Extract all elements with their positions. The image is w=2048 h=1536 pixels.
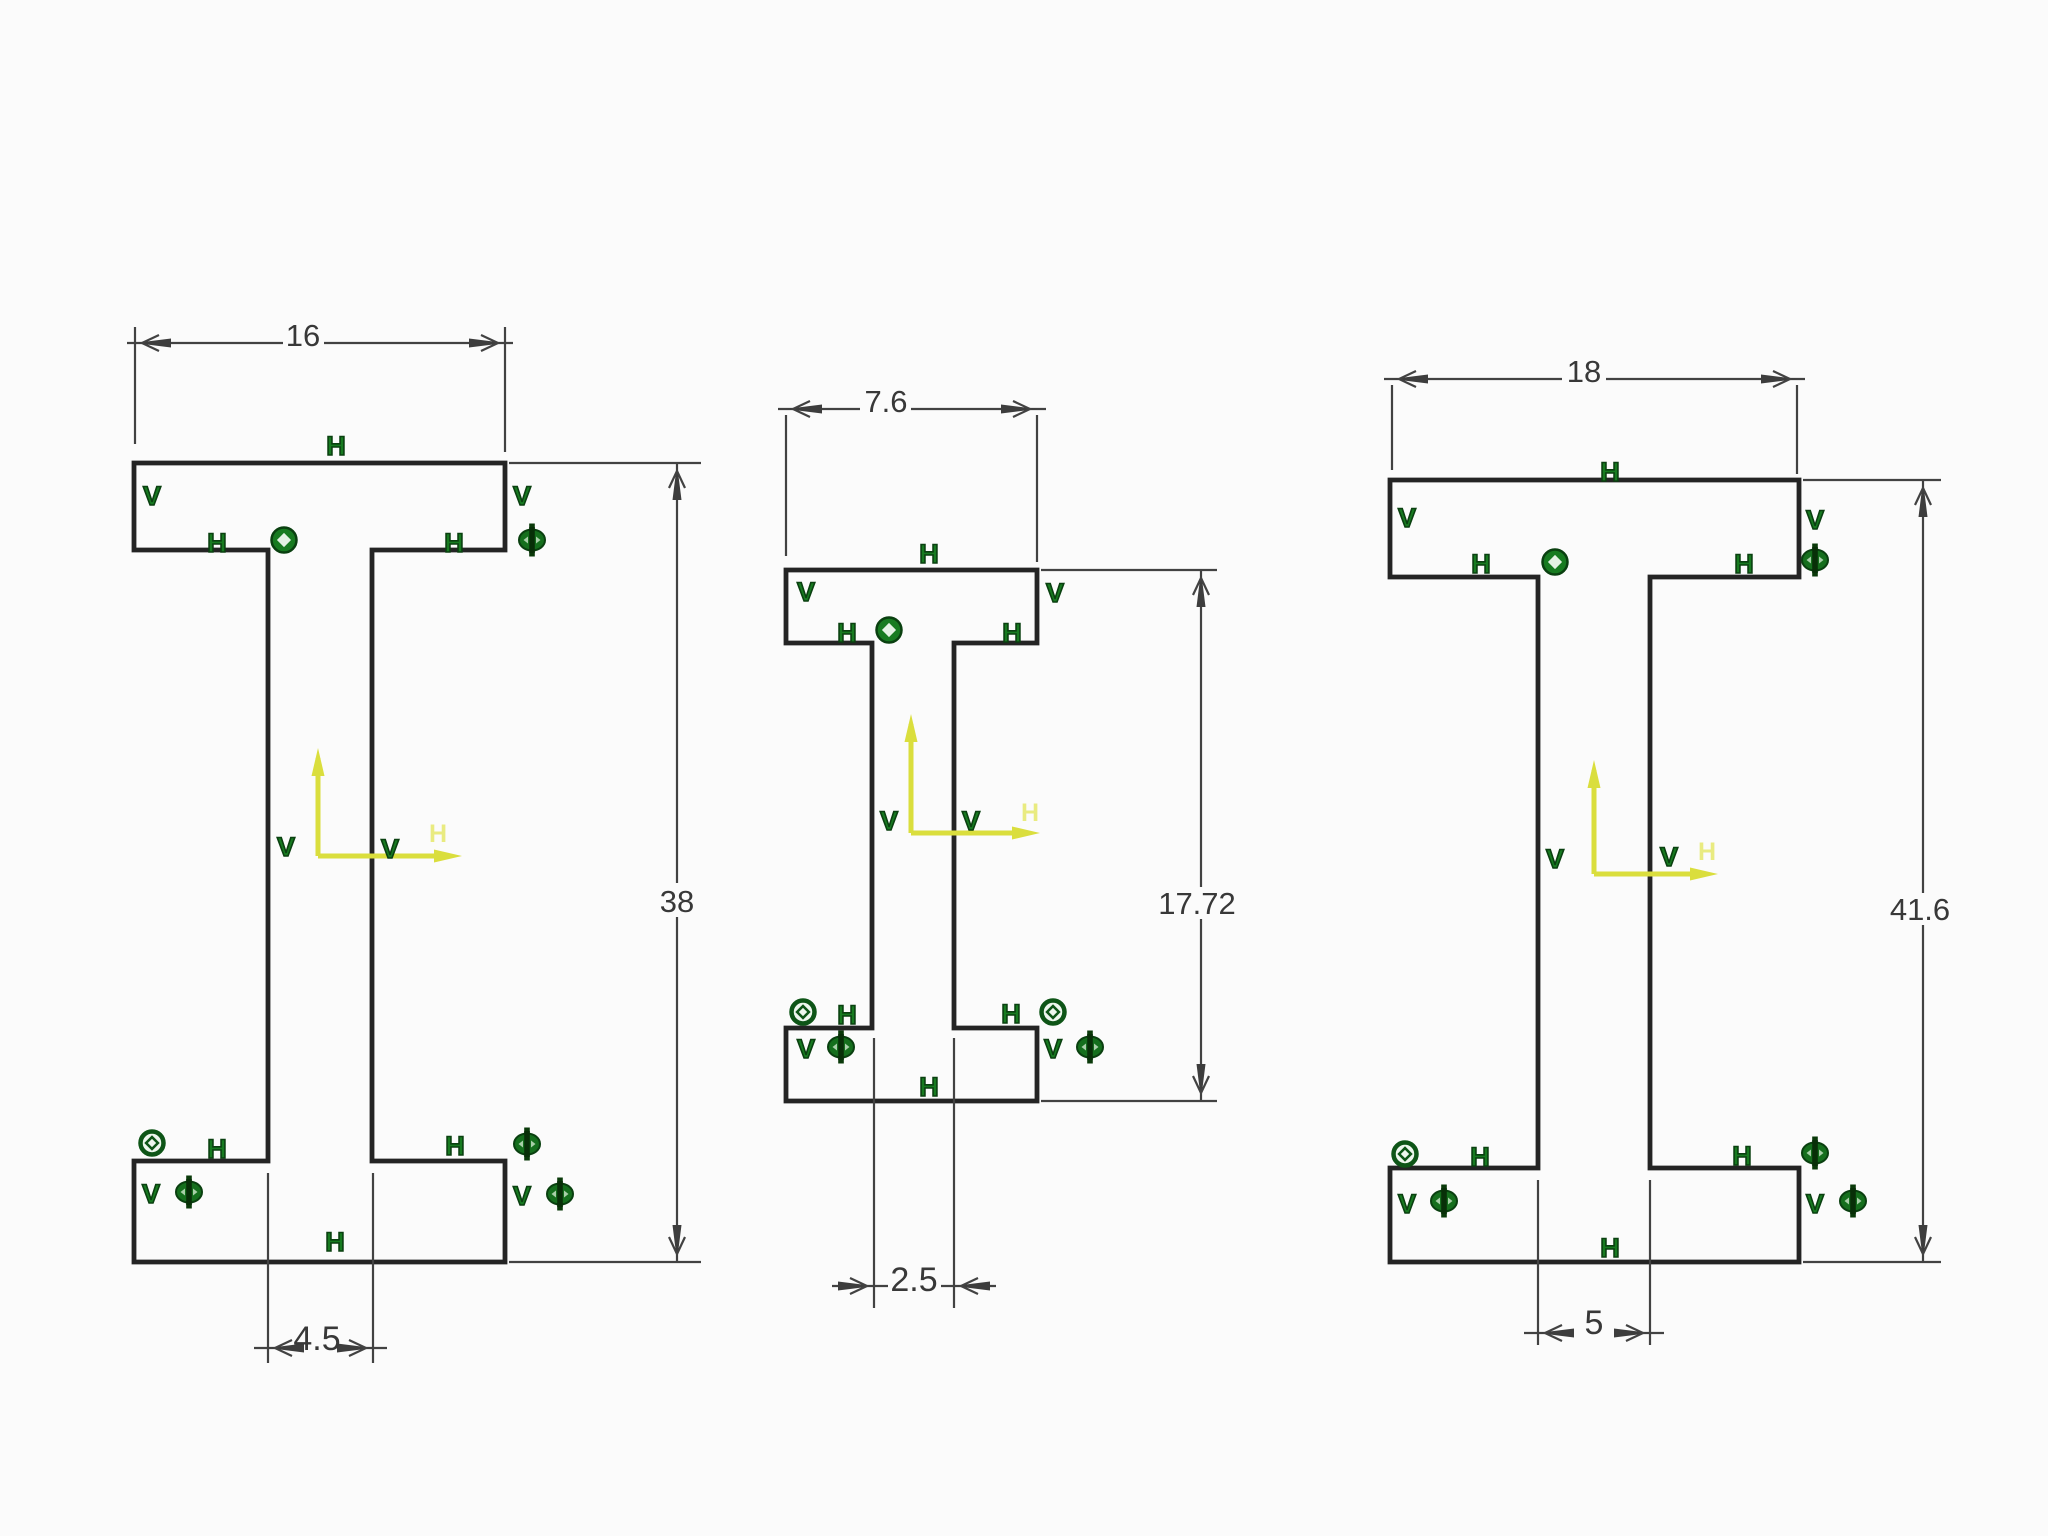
svg-text:H: H xyxy=(1600,1233,1620,1263)
svg-text:H: H xyxy=(1002,618,1022,648)
svg-text:17.72: 17.72 xyxy=(1158,886,1236,921)
dimension 5 arrow left xyxy=(1538,1329,1574,1338)
svg-text:H: H xyxy=(1021,799,1039,827)
dimension 5 extension line left xyxy=(1537,1180,1539,1345)
dimension 16 text xyxy=(283,321,324,349)
dimension 38 extension line bottom xyxy=(509,1261,701,1263)
svg-text:38: 38 xyxy=(660,884,694,919)
dimension 41.6 arrow top xyxy=(1919,481,1928,517)
constraint midpoint bottom-flange-left beam1 xyxy=(176,1176,202,1209)
dimension 17.72 line xyxy=(1200,570,1202,1101)
dimension 2.5 arrow left xyxy=(838,1282,874,1291)
dimension 16 arrow right xyxy=(469,339,505,348)
dimension 2.5 text xyxy=(888,1266,941,1295)
dimension 18 text xyxy=(1562,357,1606,385)
dimension 5 arrow right xyxy=(1614,1329,1650,1338)
constraint coincident bottom-left beam2 xyxy=(792,1001,815,1024)
svg-text:V: V xyxy=(513,1181,531,1211)
constraint midpoint bottom-flange-right beam3 xyxy=(1840,1185,1866,1218)
svg-text:H: H xyxy=(919,539,939,569)
svg-text:H: H xyxy=(429,820,447,848)
svg-text:V: V xyxy=(1806,505,1824,535)
svg-text:V: V xyxy=(797,1034,815,1064)
svg-text:V: V xyxy=(1046,578,1064,608)
dimension 4.5 line xyxy=(254,1347,387,1349)
I-beam profile 1 outline xyxy=(134,463,505,1262)
constraint midpoint top-right beam3 xyxy=(1802,544,1828,577)
dimension 2.5 extension line left xyxy=(873,1038,875,1308)
dimension 2.5 line xyxy=(832,1285,996,1287)
svg-text:V: V xyxy=(277,832,295,862)
I-beam profile 3 outline xyxy=(1390,480,1799,1262)
dimension 7.6 arrow right xyxy=(1001,405,1037,414)
dimension 7.6 line xyxy=(778,408,1046,410)
constraint midpoint bottom-flange-right beam1 xyxy=(547,1178,573,1211)
dimension 18 arrow right xyxy=(1761,375,1797,384)
constraint midpoint bottom-flange-left beam2 xyxy=(828,1031,854,1064)
dimension 16 line xyxy=(127,342,513,344)
origin axes beam 2 xyxy=(905,714,1041,840)
svg-text:H: H xyxy=(837,1000,857,1030)
svg-text:16: 16 xyxy=(286,318,320,353)
dimension 17.72 arrow bottom xyxy=(1197,1064,1206,1100)
dimension 41.6 line xyxy=(1922,480,1924,1262)
dimension 7.6 arrow left xyxy=(786,405,822,414)
svg-text:2.5: 2.5 xyxy=(890,1261,937,1299)
dimension 18 arrow left xyxy=(1392,375,1428,384)
svg-text:V: V xyxy=(962,806,980,836)
svg-text:H: H xyxy=(1600,457,1620,487)
dimension 4.5 arrow right xyxy=(337,1344,373,1353)
origin axes beam 1 xyxy=(312,748,463,863)
constraint coincident top beam2 xyxy=(877,618,902,643)
I-beam profile 2 outline xyxy=(786,570,1037,1101)
dimension 38 extension line top xyxy=(509,462,701,464)
svg-text:H: H xyxy=(207,528,227,558)
svg-text:V: V xyxy=(381,834,399,864)
svg-text:V: V xyxy=(880,806,898,836)
origin axes beam 3 xyxy=(1588,760,1719,881)
dimension 17.72 extension line top xyxy=(1041,569,1217,571)
svg-text:H: H xyxy=(326,431,346,461)
constraint midpoint top-right beam1 xyxy=(519,524,545,557)
dimension 4.5 arrow left xyxy=(268,1344,304,1353)
dimension 38 arrow top xyxy=(673,464,682,500)
dimension 41.6 text xyxy=(1878,893,1964,925)
svg-text:H: H xyxy=(445,1131,465,1161)
dimension 18 extension line right xyxy=(1796,385,1798,474)
dimension 38 line xyxy=(676,463,678,1262)
dimension 41.6 arrow bottom xyxy=(1919,1225,1928,1261)
constraint midpoint bottom-right beam3 xyxy=(1802,1137,1828,1170)
dimension 18 line xyxy=(1384,378,1805,380)
svg-text:V: V xyxy=(1546,844,1564,874)
dimension 41.6 extension line top xyxy=(1803,479,1941,481)
dimension 7.6 extension line left xyxy=(785,415,787,556)
svg-text:41.6: 41.6 xyxy=(1890,892,1950,927)
svg-text:H: H xyxy=(325,1227,345,1257)
svg-text:V: V xyxy=(797,577,815,607)
svg-text:H: H xyxy=(1471,549,1491,579)
dimension 7.6 extension line right xyxy=(1036,415,1038,562)
svg-text:V: V xyxy=(1398,503,1416,533)
svg-text:7.6: 7.6 xyxy=(864,384,907,419)
constraint coincident bottom-left beam3 xyxy=(1394,1143,1417,1166)
constraint midpoint bottom-flange-left beam3 xyxy=(1431,1185,1457,1218)
dimension 5 extension line right xyxy=(1649,1180,1651,1345)
constraint coincident top beam1 xyxy=(272,528,297,553)
constraint coincident bottom-left beam1 xyxy=(141,1132,164,1155)
svg-text:H: H xyxy=(1001,999,1021,1029)
dimension 16 extension line right xyxy=(504,327,506,452)
dimension 5 line xyxy=(1524,1332,1664,1334)
constraint coincident bottom-right beam2 xyxy=(1042,1001,1065,1024)
svg-text:V: V xyxy=(1660,842,1678,872)
dimension 38 arrow bottom xyxy=(673,1225,682,1261)
svg-text:V: V xyxy=(1044,1034,1062,1064)
svg-text:H: H xyxy=(1470,1142,1490,1172)
dimension 7.6 text xyxy=(860,387,911,415)
svg-text:H: H xyxy=(1732,1141,1752,1171)
svg-text:V: V xyxy=(513,481,531,511)
svg-text:H: H xyxy=(1734,549,1754,579)
svg-text:H: H xyxy=(1698,838,1716,866)
dimension 16 arrow left xyxy=(135,339,171,348)
svg-text:V: V xyxy=(1806,1189,1824,1219)
constraint coincident top beam3 xyxy=(1543,550,1568,575)
svg-text:V: V xyxy=(142,1179,160,1209)
svg-text:H: H xyxy=(919,1072,939,1102)
svg-text:18: 18 xyxy=(1567,354,1601,389)
svg-text:4.5: 4.5 xyxy=(293,1320,340,1358)
svg-text:V: V xyxy=(1398,1189,1416,1219)
constraint midpoint bottom-right beam1 xyxy=(514,1128,540,1161)
dimension 2.5 extension line right xyxy=(953,1038,955,1308)
dimension 38 text xyxy=(654,883,700,917)
dimension 16 extension line left xyxy=(134,327,136,444)
dimension 17.72 text xyxy=(1152,887,1244,919)
dimension 4.5 extension line right xyxy=(372,1173,374,1363)
svg-text:5: 5 xyxy=(1585,1304,1604,1342)
dimension 2.5 arrow right xyxy=(954,1282,990,1291)
dimension 17.72 extension line bottom xyxy=(1041,1100,1217,1102)
dimension 17.72 arrow top xyxy=(1197,571,1206,607)
svg-text:V: V xyxy=(143,481,161,511)
dimension 18 extension line left xyxy=(1391,385,1393,470)
svg-text:H: H xyxy=(837,618,857,648)
dimension 4.5 extension line left xyxy=(267,1173,269,1363)
constraint midpoint bottom-flange-right beam2 xyxy=(1077,1031,1103,1064)
dimension 41.6 extension line bottom xyxy=(1803,1261,1941,1263)
svg-text:H: H xyxy=(207,1134,227,1164)
svg-text:H: H xyxy=(444,528,464,558)
